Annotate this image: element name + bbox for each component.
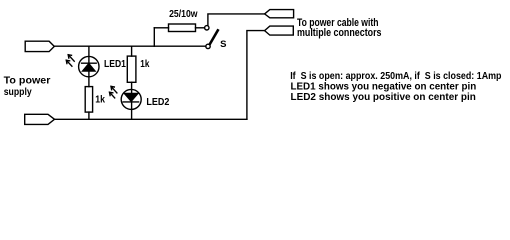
LED2 triangle [124,94,137,102]
wire resistor right lead [196,27,205,29]
switch S blade [210,30,218,44]
wire bottom rail [55,118,247,120]
LED1 light arrow 1 [68,55,74,61]
wire resistor branch riser [153,28,155,46]
wire LED1 branch [88,46,90,86]
svg-text:LED2 shows you positive on cen: LED2 shows you positive on center pin [291,91,476,103]
LED2 circle [121,89,141,109]
wire switch top to upper tag [208,14,265,26]
LED1 cathode bar [82,62,97,64]
connector J2 bottom-left (to power supply) [25,114,55,124]
svg-text:1k: 1k [140,58,149,70]
svg-text:multiple connectors: multiple connectors [297,27,382,39]
switch S top terminal [205,26,209,30]
wire R2 to bottom rail [88,112,90,119]
svg-text:25/10w: 25/10w [169,8,198,20]
resistor R1 25/10w body [169,24,196,32]
svg-text:To power: To power [4,74,51,86]
resistor R3 1k body (above LED2) [127,56,136,82]
connector J3 upper-right [265,10,294,18]
wire resistor left lead [154,27,168,29]
LED2 light arrow 2 [110,92,115,98]
wire top rail [54,45,206,47]
svg-text:LED1: LED1 [104,58,126,70]
svg-text:S: S [220,39,226,50]
connector J1 top-left (to power supply) [25,41,54,51]
svg-text:LED2: LED2 [146,96,169,108]
LED1 triangle [83,64,95,71]
resistor R2 1k body (below LED1) [85,87,92,113]
wire R3 to LED2 to bottom rail [131,82,133,119]
LED1 circle [79,56,99,76]
svg-text:supply: supply [4,86,32,98]
wire R3 branch top [131,46,133,56]
LED1 light arrow 2 [67,60,72,66]
switch S bottom terminal [206,44,210,48]
LED2 light arrow 1 [111,87,117,93]
connector J4 lower-right [265,26,294,35]
wire lower tag to bottom rail [247,31,265,120]
svg-text:1k: 1k [95,94,105,106]
LED2 cathode bar [123,101,138,103]
